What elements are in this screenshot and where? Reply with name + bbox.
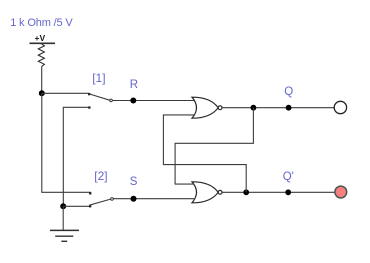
NOR gate U1 <box>192 97 222 118</box>
svg-text:+V: +V <box>35 33 46 43</box>
svg-text:1 k Ohm /5 V: 1 k Ohm /5 V <box>10 17 73 29</box>
wire U1 output to probe Q <box>222 107 334 109</box>
wire U2 output to probe Q' <box>222 191 335 193</box>
switch S2 [2] blade <box>89 199 110 205</box>
output probe Q' (red, logic 1) <box>335 186 347 198</box>
resistor R1 1 kOhm <box>38 44 44 67</box>
wire +V node to switch1 upper contact <box>42 92 90 94</box>
wire switch2 pivot to S node to gate U2 input <box>113 198 194 200</box>
svg-text:S: S <box>130 176 138 188</box>
switch S2 pivot contact <box>111 198 114 201</box>
wire switch1 pivot to R node to gate U1 input <box>112 100 194 102</box>
wire switch1 lower contact to vertical bus <box>63 107 89 206</box>
output probe Q (open circle, logic 0) <box>334 101 346 113</box>
power supply +V <box>30 33 56 43</box>
wire resistor to +V node <box>41 67 43 94</box>
wire feedback U1 output to U2 upper input <box>175 108 253 184</box>
wire feedback U2 output to U1 lower input <box>163 115 246 192</box>
switch S1 [1] blade <box>89 94 109 100</box>
node S <box>131 196 137 202</box>
wire ground node to ground symbol <box>62 206 64 230</box>
switch S1 pivot contact <box>110 99 113 102</box>
svg-text:R: R <box>130 79 138 91</box>
svg-text:Q: Q <box>284 86 293 98</box>
svg-text:Q': Q' <box>283 171 294 183</box>
wire +V node down to switch2 upper contact <box>42 93 91 192</box>
node Q <box>286 105 292 111</box>
ground <box>50 230 79 241</box>
wire ground node to switch2 lower contact <box>63 205 89 207</box>
node Q' <box>285 189 291 195</box>
svg-text:[1]: [1] <box>92 71 105 85</box>
NOR gate U2 <box>192 182 222 203</box>
node: +V junction <box>39 90 45 96</box>
svg-text:[2]: [2] <box>94 169 107 183</box>
ground node <box>60 203 66 209</box>
node: U1 output junction <box>251 105 257 111</box>
node: U2 output junction <box>243 189 249 195</box>
node R <box>130 98 136 104</box>
